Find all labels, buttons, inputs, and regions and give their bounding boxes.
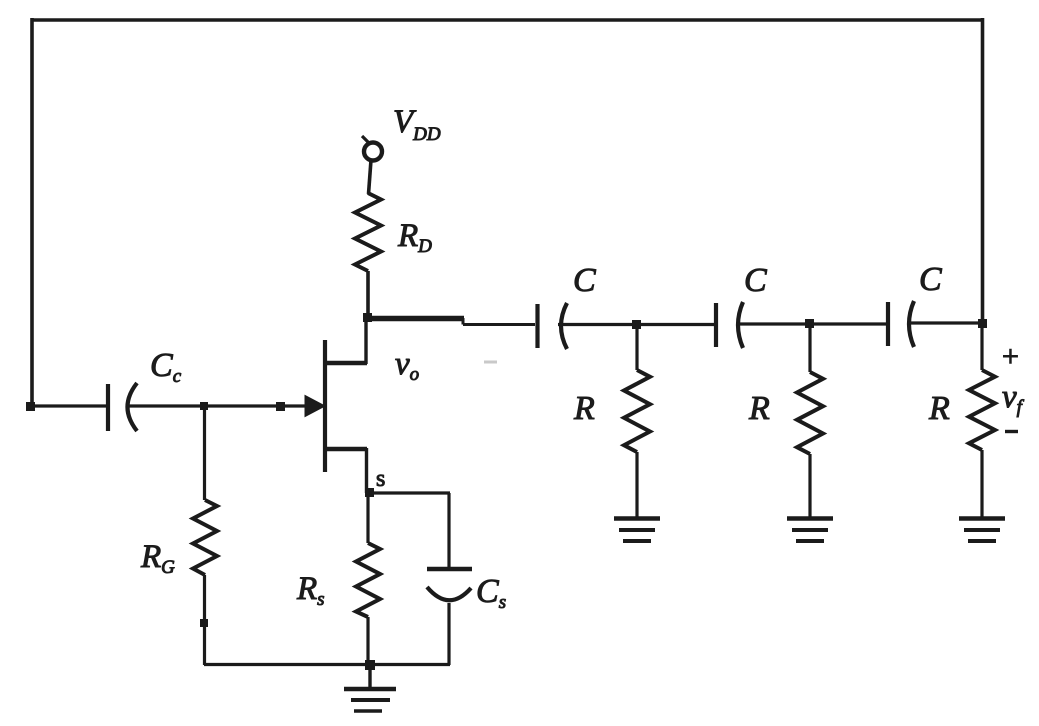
wire RD to drain node — [366, 271, 370, 318]
node 2 — [805, 319, 814, 328]
wire node2 to C3 — [812, 322, 886, 325]
wire C2 to node2 — [736, 322, 812, 325]
wire drain to C1 (thick then thin) — [366, 318, 535, 325]
svg-text:R: R — [573, 390, 595, 427]
wire s to RS — [366, 493, 369, 543]
wire feedback right — [981, 18, 985, 323]
ground R1 — [614, 519, 660, 542]
node RG bottom — [200, 619, 208, 627]
svg-text:R: R — [928, 390, 950, 427]
label minus — [1005, 430, 1018, 433]
wire Cc to gate node — [129, 404, 204, 407]
ground R3 — [959, 519, 1005, 542]
wire feedback top — [31, 18, 984, 22]
wire bottom rail — [204, 663, 450, 666]
capacitor Cc — [108, 383, 137, 431]
wire s to CS — [370, 493, 450, 567]
wire CS to bottom rail — [447, 603, 450, 665]
resistor RG — [193, 500, 217, 575]
svg-text:RG: RG — [140, 539, 175, 578]
resistor R1 — [624, 324, 650, 517]
svg-text:R: R — [748, 390, 770, 427]
transistor Q1 JFET — [305, 316, 367, 493]
node gate wire dot — [276, 402, 285, 411]
svg-text:Cc: Cc — [150, 347, 182, 387]
svg-text:+: + — [1002, 340, 1019, 373]
node input left — [26, 402, 35, 411]
resistor R3 — [969, 323, 995, 517]
ground center — [344, 665, 396, 711]
capacitor C1 — [538, 303, 568, 349]
node drain — [363, 313, 372, 322]
wire input to Cc — [33, 404, 106, 407]
node 1 — [632, 320, 641, 329]
wire VDD to RD — [369, 160, 372, 194]
faint artifact near vo — [484, 361, 497, 364]
wire C1 to node1 — [558, 323, 640, 326]
svg-text:s: s — [376, 466, 385, 492]
wire feedback left — [30, 18, 34, 406]
capacitor CS — [427, 569, 472, 600]
svg-text:Cs: Cs — [476, 573, 506, 613]
VDD terminal — [362, 136, 382, 161]
capacitor C3 — [888, 301, 914, 347]
node gate junction — [200, 402, 208, 410]
resistor RD — [355, 193, 381, 271]
svg-text:RD: RD — [397, 218, 432, 257]
svg-text:vf: vf — [1002, 379, 1025, 418]
wire RG to bottom rail — [203, 575, 206, 665]
node source s — [365, 488, 374, 497]
node 3 — [978, 319, 987, 328]
wire gate node down to RG — [203, 406, 206, 500]
svg-text:vo: vo — [395, 346, 419, 385]
svg-text:C: C — [919, 261, 942, 298]
wire C3 to node3 — [907, 321, 984, 324]
resistor R2 — [797, 324, 823, 517]
svg-text:C: C — [744, 262, 767, 299]
svg-text:Rs: Rs — [296, 571, 325, 610]
wire RS to bottom rail — [366, 617, 369, 665]
ground R2 — [787, 519, 833, 542]
svg-text:VDD: VDD — [393, 104, 441, 145]
resistor RS — [356, 543, 380, 617]
wire gate node to transistor — [204, 404, 306, 407]
capacitor C2 — [716, 302, 743, 348]
wire node1 to C2 — [640, 323, 714, 326]
svg-text:C: C — [573, 262, 596, 299]
node bottom center — [365, 660, 375, 670]
